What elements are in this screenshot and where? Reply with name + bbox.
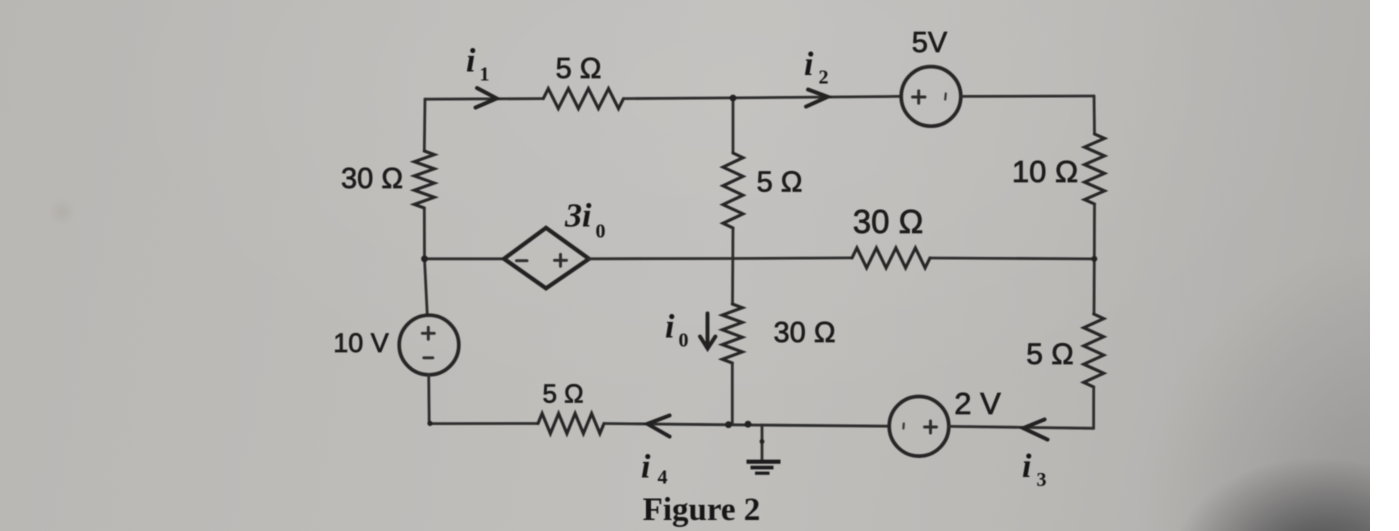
svg-text:30 Ω: 30 Ω [774, 317, 836, 349]
resistor R7 5ohm (right lower) [1084, 314, 1104, 387]
wire center vertical from top node [732, 98, 735, 153]
wire 5V source to top-right corner [961, 95, 1094, 98]
dependent source 3i0 (diamond) [504, 228, 589, 288]
wire center vertical to bottom node [731, 363, 734, 424]
wire 2V source to bottom-right corner [949, 426, 1094, 428]
ground stem [761, 425, 764, 461]
V3 plus sign [925, 421, 937, 433]
svg-text:5 Ω: 5 Ω [556, 53, 602, 85]
svg-text:10 V: 10 V [333, 328, 389, 358]
wire dependent source to center node to 30ohm [589, 256, 852, 260]
node dot middle-left [421, 255, 428, 262]
wire top-left to top 5ohm resistor [425, 97, 543, 100]
wire bottom-left corner to bottom 5ohm [429, 422, 538, 425]
V3 minus tick [902, 424, 905, 429]
current arrow i2 [806, 90, 828, 107]
wire left vertical top segment [423, 99, 427, 151]
wire right vertical middle segment [1093, 204, 1096, 314]
ground bar 2 [751, 466, 774, 470]
resistor R2 30ohm (left) [414, 151, 434, 208]
wire center vertical between resistors [731, 228, 734, 304]
resistor R1 5ohm (top) [543, 89, 623, 109]
resistor R8 5ohm (bottom) [538, 414, 604, 434]
ground blob on stem [760, 439, 765, 444]
resistor R5 30ohm (center lower) [722, 304, 742, 363]
voltage source V3 2V [889, 397, 949, 457]
wire 10V source to bottom-left corner [427, 375, 430, 424]
svg-text:10 Ω: 10 Ω [1012, 154, 1078, 189]
V2 minus sign [424, 356, 433, 359]
corner blob bottom-left [427, 421, 432, 426]
voltage source V2 10V [399, 315, 459, 375]
V2 plus sign [422, 327, 434, 339]
resistor R6 10ohm (right upper) [1085, 134, 1105, 204]
ground bar 1 [747, 460, 781, 464]
diamond plus sign [555, 254, 567, 266]
node dot bottom-center A [725, 421, 732, 428]
wire right vertical top segment [1093, 96, 1096, 134]
resistor R4 5ohm (center upper) [723, 153, 743, 228]
resistor R3 30ohm (middle) [852, 248, 930, 268]
svg-text:5V: 5V [912, 27, 948, 59]
node dot top-center [730, 95, 737, 102]
node dot middle-right [1091, 256, 1097, 262]
svg-text:5 Ω: 5 Ω [1026, 338, 1073, 371]
svg-text:30 Ω: 30 Ω [853, 203, 924, 240]
wire right vertical bottom segment [1092, 387, 1095, 428]
V1 plus sign [913, 91, 926, 103]
V1 minus tick [944, 94, 947, 100]
wire left vertical middle segment [424, 208, 427, 315]
current arrow i1 [476, 88, 497, 108]
wire bottom 5ohm to 2V source [604, 424, 889, 427]
wire middle 30ohm to right wire [930, 257, 1094, 261]
svg-text:2 V: 2 V [954, 386, 1001, 421]
svg-text:30 Ω: 30 Ω [341, 163, 403, 195]
wire top resistor to 5V source [624, 96, 902, 98]
svg-text:5 Ω: 5 Ω [542, 379, 583, 409]
current arrow i4 [647, 415, 669, 436]
wire middle-left node to dependent source [425, 257, 505, 260]
node dot bottom-center B [745, 421, 752, 428]
current arrow i3 [1023, 419, 1047, 439]
diamond minus sign [517, 259, 528, 262]
ground bar 3 [755, 472, 770, 475]
svg-text:5 Ω: 5 Ω [757, 167, 803, 199]
svg-text:Figure 2: Figure 2 [643, 492, 761, 528]
voltage source V1 5V [901, 67, 961, 127]
current arrow i0 [700, 314, 715, 349]
